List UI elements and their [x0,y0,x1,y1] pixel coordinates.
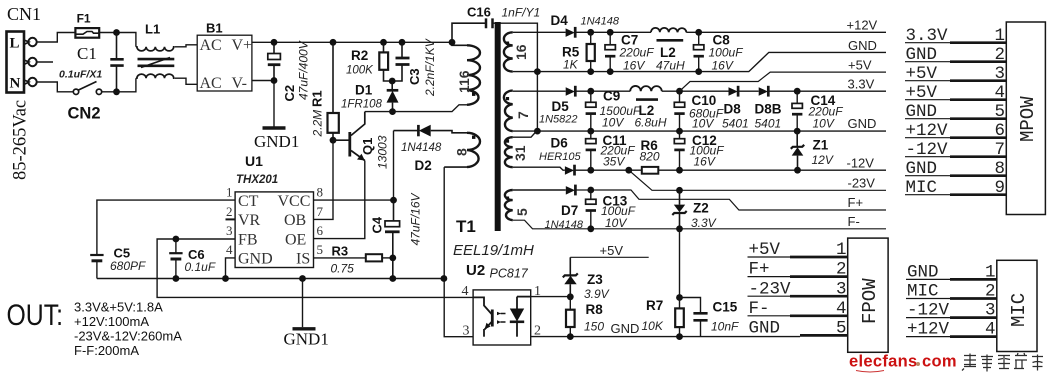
svg-text:150: 150 [584,320,604,334]
wire winding31 to rail B [513,131,537,137]
svg-text:10V: 10V [605,216,627,230]
transistor Q1 [333,112,390,169]
svg-text:+12V: +12V [907,320,950,340]
wire winding5 to D7 [513,189,566,191]
transformer T1 primary winding 116 [452,42,480,105]
svg-text:PC817: PC817 [490,267,529,281]
wire earth pin [37,61,53,63]
svg-text:Z1: Z1 [813,138,829,153]
node aux gnd rail [441,275,448,282]
wire F+ line [575,190,886,210]
svg-text:10K: 10K [642,319,664,333]
MPOW pin 1 3.3V [905,26,1006,46]
node R1 top [330,39,337,46]
node R2 top [380,39,387,46]
svg-text:4: 4 [995,83,1006,103]
svg-text:D4: D4 [551,13,569,28]
MIC pin 4 +12V [906,320,997,340]
svg-text:D8B: D8B [755,102,782,117]
svg-text:F-: F- [749,299,770,319]
secondary ground rail row A [513,52,886,71]
node C9 top [587,88,594,95]
+5V/3.3V rail [575,90,886,92]
svg-text:0.1uF/X1: 0.1uF/X1 [59,69,102,81]
ground GND1 (control) [284,279,329,349]
inductor L2 6.8uH [630,86,667,130]
transformer T1 secondary winding 5 [505,190,530,220]
node R8 bottom [567,333,574,340]
capacitor C15 [680,298,740,337]
connector MIC [997,260,1037,351]
secondary ground rail row B [513,130,886,132]
diode D2 [394,125,468,173]
svg-text:GND: GND [906,102,938,122]
capacitor C6 [169,239,216,279]
transformer T1 aux winding 8 [444,133,480,167]
svg-text:CT: CT [238,193,259,210]
svg-text:R2: R2 [351,48,368,63]
wire winding16 to D4 [513,31,566,33]
svg-text:31: 31 [512,145,528,161]
transformer T1 secondary winding 7 [504,91,531,132]
svg-text:3.3V&+5V:1.8A: 3.3V&+5V:1.8A [74,300,163,315]
svg-text:1N5822: 1N5822 [539,114,578,126]
svg-text:1: 1 [985,263,996,283]
resistor R2 [346,42,392,81]
node R7 C15 [676,294,683,301]
svg-text:R3: R3 [332,244,349,259]
node Z1 bottom [794,167,801,174]
svg-text:1K: 1K [563,58,579,72]
MIC pin 3 -12V [906,301,997,321]
resistor R6 [640,138,660,174]
FPOW pin 5 GND [749,319,848,339]
svg-text:Q1: Q1 [360,138,375,155]
wire OB pin7 to Q1 base [314,140,334,219]
svg-text:100K: 100K [346,65,374,77]
bottom GND rail [531,336,800,338]
fuse F1 [75,12,99,38]
svg-text:GND1: GND1 [254,132,299,151]
connector FPOW [848,238,888,352]
node C1 bottom [113,88,120,95]
svg-text:C1: C1 [77,44,97,63]
optocoupler U2 PC817 [466,262,531,345]
node C6 top [173,236,180,243]
svg-text:THX201: THX201 [236,174,278,186]
svg-text:47uF/400V: 47uF/400V [297,40,311,100]
node C13 bottom [587,225,594,232]
svg-text:8: 8 [454,148,470,156]
FPOW pin 1 +5V [748,240,848,260]
svg-text:T1: T1 [456,217,476,236]
capacitor C14 [792,91,843,131]
svg-text:2.2nF/1KV: 2.2nF/1KV [423,38,437,97]
node Z2 bottom / R7 top [676,225,683,232]
svg-text:4: 4 [836,299,847,319]
svg-text:7: 7 [317,204,324,219]
wire B1 V- to GND1 [252,81,274,127]
MIC pin 2 MIC [906,282,997,302]
MPOW pin 6 +12V [905,121,1006,141]
node C3 top [399,39,406,46]
transformer T1 secondary winding 16 [504,32,529,71]
svg-text:com: com [922,353,957,371]
svg-text:D8: D8 [724,102,742,117]
node C14 top [794,88,801,95]
wire +5V tap [680,72,887,91]
svg-text:D2: D2 [415,158,432,173]
svg-text:GND: GND [906,45,938,65]
MPOW pin 4 +5V [905,83,1006,103]
resistor R3 [314,244,393,276]
svg-text:+5V: +5V [906,83,938,103]
node C12 bottom [676,167,683,174]
svg-text:D5: D5 [552,99,570,114]
svg-text:3.3V: 3.3V [848,76,875,91]
zener Z1 [791,131,834,170]
connector CN1 [7,32,37,93]
svg-text:+12V:100mA: +12V:100mA [74,314,149,329]
svg-text:VR: VR [238,212,261,229]
node C7 top [607,29,614,36]
svg-text:47uF/16V: 47uF/16V [409,192,423,245]
svg-text:U2: U2 [466,262,485,279]
svg-text:FPOW: FPOW [859,278,881,324]
node C9 bottom [587,128,594,135]
svg-text:MIC: MIC [906,178,938,198]
node R5 bottom [587,68,594,75]
-12V rail row C [575,169,887,171]
svg-text:OE: OE [285,231,306,248]
svg-text:4: 4 [985,320,996,340]
wire FB pin3 to U2 pin4 [157,239,473,297]
svg-text:0.75: 0.75 [331,262,355,276]
+12V rail [575,31,886,33]
wire U2 pin1 to Z3 [531,296,571,298]
svg-text:10nF: 10nF [711,320,739,334]
node R2 C3 D1 [389,78,396,85]
svg-text:10V: 10V [692,117,714,131]
svg-text:6: 6 [995,121,1006,141]
svg-text:3: 3 [463,324,470,339]
svg-text:elecfans: elecfans [849,353,917,371]
MIC pin 1 GND [906,263,997,283]
resistor R7 [642,298,684,337]
wire L1 to B1 bottom [175,78,197,84]
svg-text:GND1: GND1 [284,330,329,349]
node Z3 R8 [567,293,574,300]
svg-text:MIC: MIC [1008,293,1030,327]
svg-text:4: 4 [462,284,469,299]
svg-text:12V: 12V [812,153,834,167]
svg-text:5: 5 [995,102,1006,122]
svg-text:GND: GND [749,319,781,339]
capacitor C10 [674,91,723,131]
svg-text:680PF: 680PF [110,259,146,273]
svg-text:F-: F- [848,214,860,229]
wire N pin to CN2 [37,82,73,92]
svg-text:GND: GND [848,116,877,131]
svg-text:3: 3 [985,301,996,321]
svg-text:F-F:200mA: F-F:200mA [74,343,139,358]
MPOW pin 8 GND [905,159,1006,179]
svg-text:220uF: 220uF [619,46,655,60]
node C8 bottom [695,68,702,75]
OUT summary text [7,299,183,358]
FPOW pin 2 F+ [748,260,848,280]
diode D6 [539,136,581,176]
switch CN2 [68,82,102,123]
chinese brand text [962,353,1043,372]
wire Q1 emitter to pin6 OE [314,161,365,239]
svg-text:3.9V: 3.9V [584,287,610,301]
svg-text:+12V: +12V [906,121,949,141]
IC U1 THX201 [235,153,313,268]
svg-text:5401: 5401 [722,117,749,131]
primary ground rail [97,278,444,280]
node C7 bottom [607,68,614,75]
node C10 bottom [676,128,683,135]
capacitor C11 [586,131,636,170]
svg-text:R8: R8 [586,302,604,317]
zener Z2 [672,190,716,230]
svg-text:6.8uH: 6.8uH [635,116,667,130]
node C16 tie bottom [534,128,541,135]
node C4 bottom rail [389,275,396,282]
svg-text:1: 1 [995,26,1006,46]
svg-text:2.2M: 2.2M [311,110,325,138]
svg-text:C2: C2 [282,85,297,102]
wire L pin to F1 [37,33,76,43]
node R7 bottom [676,333,683,340]
connector MPOW [1006,22,1045,215]
+5V feed line [570,256,648,258]
wire D2 cathode down to VCC node [393,131,395,201]
svg-text:2: 2 [226,204,233,219]
svg-text:8: 8 [995,159,1006,179]
wire winding7 to D5 [513,90,566,92]
svg-text:3: 3 [995,64,1006,84]
U1 pin 4 [226,242,236,278]
svg-text:OB: OB [284,212,306,229]
node HV rail / C16 riser [449,39,456,46]
capacitor C9 [586,89,641,131]
FPOW pin 3 -23V [748,279,848,299]
svg-text:C3: C3 [407,68,422,85]
svg-text:3.3V: 3.3V [691,216,717,230]
svg-text:9: 9 [995,178,1006,198]
svg-text:+5V: +5V [749,240,781,260]
svg-text:16V: 16V [694,155,716,169]
svg-text:5: 5 [514,208,530,216]
svg-text:13003: 13003 [376,135,390,169]
svg-text:VCC: VCC [278,193,311,210]
svg-text:F1: F1 [77,12,91,26]
svg-text:-12V: -12V [907,301,950,321]
svg-text:4: 4 [226,242,233,257]
svg-text:7: 7 [995,140,1006,160]
inductor L2 47uH [651,28,686,73]
node GND1 stub [299,275,306,282]
svg-text:1N4148: 1N4148 [581,16,620,28]
svg-text:100uF: 100uF [709,46,744,60]
node R5 top [587,29,594,36]
svg-text:F+: F+ [848,195,864,210]
wire winding31 bottom to D6 [513,167,565,170]
svg-text:Z3: Z3 [587,272,603,287]
capacitor C12 [674,131,724,170]
svg-text:85-265Vac: 85-265Vac [11,100,31,180]
wire F1 to C1 to L1 top [99,33,136,47]
transformer T1 secondary winding 31 [505,137,528,167]
svg-text:GND: GND [907,263,939,283]
node C13 top [587,187,594,194]
wire -23V branch [629,170,886,190]
elecfans.com logo [849,353,957,373]
svg-text:MIC: MIC [907,282,939,302]
svg-text:-12V: -12V [906,140,949,160]
resistor R5 [562,32,595,71]
svg-text:+5V: +5V [906,64,938,84]
diode D1 [341,81,399,112]
svg-text:FB: FB [238,231,258,248]
MPOW pin 5 GND [905,102,1006,122]
capacitor C7 [605,32,654,72]
svg-text:L1: L1 [145,22,160,37]
svg-text:U1: U1 [245,153,263,169]
node C6 bottom [173,275,180,282]
node C14 bottom [794,128,801,135]
svg-text:35V: 35V [603,155,625,169]
node C10 top / +5V tap [676,88,683,95]
resistor R1 [310,42,339,140]
wire CT pin1 to C5 [97,200,235,255]
resistor R8 [566,297,604,337]
svg-text:-23V: -23V [848,175,876,190]
capacitor C3 [392,38,437,97]
wire collector line to winding [365,105,467,112]
svg-text:2: 2 [995,45,1006,65]
node C1 top [113,29,120,36]
svg-text:CN1: CN1 [7,4,41,24]
diode D5 [539,86,578,126]
svg-text:C16: C16 [467,5,491,20]
svg-text:R1: R1 [310,90,325,107]
svg-text:GND: GND [611,321,640,336]
svg-text:R7: R7 [646,298,663,313]
svg-text:V+: V+ [232,37,253,54]
ground GND1 (input) [254,128,299,151]
svg-text:B1: B1 [206,21,223,36]
svg-text:5401: 5401 [755,117,782,131]
svg-text:16V: 16V [623,59,645,73]
diode D7 [545,185,584,231]
capacitor C16 [452,5,540,131]
svg-text:+5V: +5V [848,57,872,72]
svg-text:3: 3 [226,223,233,238]
svg-text:0.1uF: 0.1uF [185,260,216,274]
svg-text:MPOW: MPOW [1017,96,1039,142]
wire L1 to B1 top [175,45,197,47]
node U1 GND pin [222,275,229,282]
node C11 bottom [587,167,594,174]
U1 pin 2 [226,204,236,220]
choke L1 [136,22,175,79]
svg-text:GND: GND [906,159,938,179]
svg-text:C15: C15 [713,300,738,315]
svg-text:10V: 10V [602,116,624,130]
svg-text:1nF/Y1: 1nF/Y1 [502,6,541,20]
capacitor C8 [694,32,744,72]
wire CN2 to C1 bottom to L1 bottom [102,78,136,92]
svg-text:+12V: +12V [847,18,878,33]
svg-text:L: L [10,36,20,52]
wire F- line [513,220,886,229]
MPOW pin 9 MIC [905,178,1006,198]
svg-text:-23V&-12V:260mA: -23V&-12V:260mA [74,329,182,344]
node R6 left [625,167,632,174]
wire aux winding to primary gnd and U2 pin3 [444,167,473,337]
svg-text:47uH: 47uH [656,59,685,73]
bridge rectifier B1 [197,21,252,93]
svg-text:5: 5 [317,242,324,257]
diode D4 [551,13,620,38]
svg-text:OUT:: OUT: [7,299,64,332]
svg-text:GND: GND [848,38,877,53]
FPOW pin 4 F- [748,299,848,319]
svg-text:C4: C4 [370,216,385,233]
svg-text:10V: 10V [813,117,835,131]
svg-text:AC: AC [200,75,222,92]
capacitor C13 [586,190,636,230]
node C16 tie [534,68,541,75]
wire R7 drop from F- [679,229,681,298]
svg-text:3.3V: 3.3V [906,26,949,46]
svg-text:D1: D1 [355,83,373,98]
svg-text:+5V: +5V [600,243,624,258]
svg-text:Z2: Z2 [693,201,709,216]
MPOW pin 3 +5V [905,64,1006,84]
svg-text:EEL19/1mH: EEL19/1mH [453,242,534,259]
capacitor C4 [370,192,423,278]
node R3 IS sense [389,255,396,262]
svg-text:3: 3 [836,279,847,299]
svg-text:GND: GND [238,251,273,268]
wire B1 V+ to HV rail [252,41,452,43]
MPOW pin 7 -12V [905,140,1006,160]
node D1 anode [389,108,396,115]
capacitor C1 [59,33,124,92]
transformer T1 core [495,22,501,231]
net labels right side [847,18,878,230]
svg-text:F+: F+ [749,260,770,280]
svg-text:16V: 16V [712,59,734,73]
diode D8 [722,86,749,131]
svg-text:5: 5 [836,319,847,339]
wire VCC pin8 [314,199,394,201]
svg-text:1: 1 [226,185,233,200]
diode D8B [755,86,782,131]
node Q1 base [330,137,337,144]
svg-text:1FR108: 1FR108 [341,99,383,111]
svg-text:AC: AC [200,37,222,54]
capacitor C2 [268,40,311,101]
svg-text:C9: C9 [603,89,620,104]
svg-text:CN2: CN2 [68,105,101,123]
svg-text:HER105: HER105 [539,151,581,163]
svg-text:N: N [10,76,21,92]
